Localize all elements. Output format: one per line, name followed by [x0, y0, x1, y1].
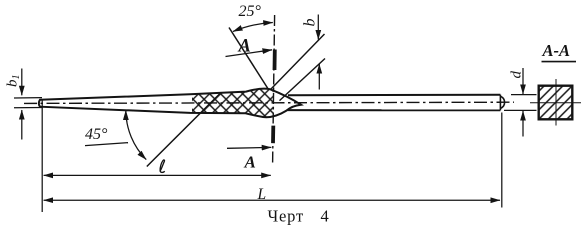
leader 45deg	[85, 143, 128, 146]
section cut thick mark bottom	[271, 126, 275, 144]
svg-text:b: b	[302, 19, 319, 27]
bevel edge line upper	[271, 34, 325, 89]
svg-text:A: A	[238, 37, 251, 57]
blade cross-hatching	[39, 89, 301, 118]
svg-text:L: L	[257, 186, 267, 203]
section square centerlines	[530, 79, 581, 126]
dimension line l	[44, 174, 271, 176]
svg-text:d: d	[509, 71, 525, 79]
section line A-A (vertical dash-dot)	[273, 15, 275, 164]
45 degree angle arc	[126, 110, 146, 159]
right extension line for L	[501, 113, 503, 208]
svg-text:Черт4: Черт4	[268, 207, 330, 226]
dimension b lower arrow	[318, 64, 320, 90]
svg-text:25°: 25°	[239, 3, 262, 20]
dimension d extension lines	[504, 95, 537, 111]
shaft right part of tool	[284, 95, 505, 111]
section square with hatching	[539, 86, 573, 120]
left extension line for l and L	[41, 99, 43, 212]
view arrow top A	[226, 50, 273, 57]
svg-text:45°: 45°	[85, 126, 108, 143]
blade outline stroke	[39, 89, 301, 118]
label l (script ell)	[160, 160, 165, 172]
25 degree sharpening line	[229, 28, 269, 90]
dimension b1 extension lines	[14, 98, 42, 108]
bevel edge line lower	[280, 59, 326, 101]
svg-text:A-A: A-A	[542, 41, 571, 60]
axis centerline	[24, 102, 514, 103]
section cut thick mark top	[273, 50, 277, 71]
dimension b upper arrow	[317, 15, 319, 40]
section A-A underline	[542, 61, 577, 63]
view arrow bottom A	[227, 146, 271, 149]
dimension d arrows	[522, 68, 524, 94]
dimension line L	[44, 199, 500, 201]
dimension b1 arrows	[21, 69, 23, 96]
svg-text:A: A	[244, 153, 256, 172]
45 degree edge line	[147, 93, 221, 167]
25 degree angle arc	[233, 23, 273, 32]
blade body (tapered flat part with tip)	[39, 89, 301, 118]
